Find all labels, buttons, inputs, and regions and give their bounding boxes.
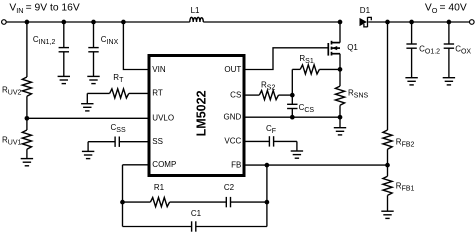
svg-text:VO = 40V: VO = 40V	[425, 3, 467, 15]
junction rail / CO1,2	[409, 20, 414, 25]
wire FB vertical down	[266, 165, 268, 226]
svg-text:LM5022: LM5022	[195, 90, 209, 136]
wire RFB1 ground stem	[387, 195, 389, 211]
wire RSNS bottom	[339, 105, 341, 117]
wire input rail	[7, 21, 190, 23]
junction rail / COX	[447, 20, 452, 25]
resistor RS1	[300, 65, 319, 74]
ground GND net	[334, 128, 346, 135]
capacitor C1	[192, 221, 196, 231]
junction rail / RFB2	[385, 20, 390, 25]
wire CS node to CCS	[291, 95, 293, 104]
wire CSS left	[88, 141, 115, 143]
wire CF right	[274, 140, 297, 142]
diode D1 schottky	[360, 17, 372, 27]
resistor RUV1	[22, 130, 31, 149]
junction rail / Q1 drain / D1 anode	[338, 20, 343, 25]
svg-text:R1: R1	[154, 183, 165, 192]
junction Q1 source / RS1 / RSNS	[338, 67, 343, 72]
ground CF	[291, 151, 303, 158]
output terminal VO	[470, 20, 475, 25]
wire RT to RT pin	[129, 92, 148, 94]
wire CO1,2 top	[411, 22, 413, 44]
junction COMP / R1 row	[120, 200, 125, 205]
svg-text:UVLO: UVLO	[152, 113, 174, 122]
junction input rail / CIN1,2	[61, 20, 66, 25]
resistor RT	[110, 89, 129, 98]
wire COX bottom	[448, 48, 450, 77]
wire CINX top	[93, 22, 95, 48]
svg-text:C1: C1	[191, 209, 202, 218]
ground RUV1	[21, 159, 33, 166]
junction FB / compensation	[265, 163, 270, 168]
wire CS pin to RS2	[246, 94, 260, 96]
svg-text:D1: D1	[360, 6, 371, 15]
wire RS1 to Q1 source node	[319, 68, 340, 70]
capacitor C2	[226, 197, 230, 207]
wire COMP vertical	[122, 165, 124, 227]
wire RUV2 top	[26, 22, 28, 77]
wire CO1,2 bottom	[411, 48, 413, 77]
svg-text:RT: RT	[152, 89, 163, 98]
wire RUV1 bottom	[26, 149, 28, 158]
ground COX	[443, 78, 455, 85]
capacitor CO1,2	[406, 44, 416, 48]
wire OUT pin to Q1 gate	[246, 48, 328, 70]
wire CF ground stem	[296, 141, 298, 151]
junction input rail / VIN pin	[121, 20, 126, 25]
wire RUV2 bottom to RUV1 top	[26, 96, 28, 130]
ground CIN1,2	[58, 76, 70, 83]
wire CINX bottom	[93, 52, 95, 77]
wire C1 right	[196, 226, 267, 228]
capacitor CF	[269, 136, 273, 146]
wire CIN1,2 bottom	[63, 52, 65, 77]
wire rail to RFB2	[387, 22, 389, 130]
wire R1 left	[123, 201, 151, 203]
resistor RFB1	[383, 176, 392, 195]
capacitor COX	[444, 44, 454, 48]
junction input rail / CINX	[91, 20, 96, 25]
op-amp U1 LM5022 controller IC	[149, 56, 244, 176]
wire RT left	[87, 92, 109, 94]
junction FB divider	[385, 163, 390, 168]
resistor RUV2	[22, 77, 31, 96]
svg-text:SS: SS	[152, 137, 163, 146]
wire C1 left	[123, 226, 192, 228]
wire FB pin to feedback divider	[246, 164, 388, 166]
svg-text:Q1: Q1	[347, 43, 358, 52]
capacitor CIN1,2	[59, 48, 69, 52]
wire UVLO node to UVLO pin	[27, 117, 148, 119]
wire Q1 source down	[339, 54, 341, 70]
svg-text:VCC: VCC	[224, 137, 241, 146]
resistor RSNS	[335, 86, 344, 105]
ground RFB1	[381, 211, 393, 218]
inductor L1	[190, 17, 204, 22]
input terminal VIN	[2, 20, 7, 25]
svg-text:OUT: OUT	[224, 65, 241, 74]
svg-text:C2: C2	[224, 183, 235, 192]
wire R1 to C2	[170, 201, 227, 203]
junction C2 / FB vertical	[265, 200, 270, 205]
svg-text:FB: FB	[231, 160, 241, 169]
svg-text:VIN: VIN	[152, 65, 166, 74]
junction input rail / RUV2	[25, 20, 30, 25]
wire COX top	[448, 22, 450, 44]
junction CS node	[290, 93, 295, 98]
wire RS2 to CS node	[279, 94, 293, 96]
wire CCS to GND wire	[291, 109, 293, 118]
wire GND pin to RSNS bottom	[246, 116, 341, 118]
wire CSS ground stem	[87, 142, 89, 152]
wire RFB2 to RFB1	[387, 149, 389, 176]
svg-text:L1: L1	[191, 6, 200, 15]
wire Q1 drain to rail	[339, 22, 341, 43]
wire VCC pin to CF	[246, 140, 270, 142]
wire output rail	[368, 21, 469, 23]
ground CINX	[87, 76, 99, 83]
wire CS node up to RS1	[291, 69, 293, 95]
ground CO1,2	[405, 78, 417, 85]
svg-text:COMP: COMP	[152, 160, 176, 169]
svg-text:CS: CS	[230, 90, 241, 99]
wire VIN branch to pin	[123, 22, 147, 70]
resistor RS2	[259, 91, 278, 100]
capacitor CSS	[115, 137, 119, 147]
junction GND wire / RSNS	[338, 115, 343, 120]
wire COMP pin left	[123, 164, 148, 166]
resistor RFB2	[383, 130, 392, 149]
wire CIN1,2 top	[63, 22, 65, 48]
svg-text:GND: GND	[224, 113, 242, 122]
wire C2 right	[231, 201, 267, 203]
wire CSS to SS pin	[119, 141, 147, 143]
wire RT ground stem	[86, 93, 88, 103]
capacitor CCS	[287, 104, 297, 108]
wire RSNS top	[339, 69, 341, 86]
junction GND wire / CCS	[290, 115, 295, 120]
capacitor CINX	[88, 48, 98, 52]
wire rail L1 to Q1/D1 node	[203, 21, 340, 23]
junction UVLO node	[25, 116, 30, 121]
wire GND ground stem	[339, 117, 341, 128]
ground RT	[81, 104, 93, 111]
ground CSS	[82, 151, 94, 158]
transistor Q1 N-MOSFET	[328, 41, 340, 56]
resistor R1	[150, 198, 169, 207]
wire RS1 left	[292, 68, 300, 70]
